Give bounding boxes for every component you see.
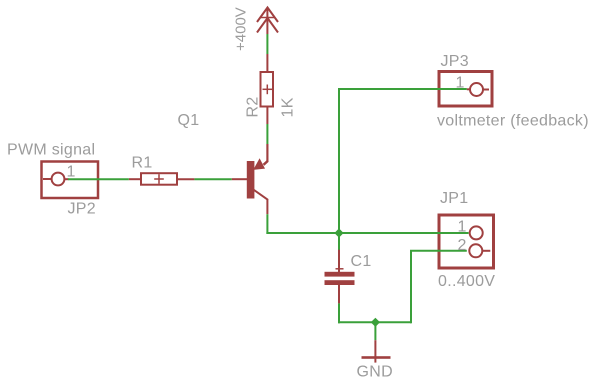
transistor Q1 (247, 144, 268, 214)
connector JP3 (439, 72, 492, 107)
wire net feedback horizontal (338, 88, 467, 90)
wire net emitter (266, 124, 268, 144)
svg-text:1K: 1K (280, 97, 297, 117)
wire net gnd right vertical (410, 251, 412, 323)
wire net to JP1 pin2 (410, 250, 467, 252)
svg-text:+400V: +400V (233, 7, 250, 51)
wire net collector vertical (266, 214, 268, 234)
svg-text:C1: C1 (351, 253, 372, 270)
pin Q1 emitter (266, 144, 268, 161)
capacitor C1 pin bottom (338, 285, 340, 303)
svg-text:1: 1 (67, 164, 76, 181)
wire net feedback vertical (338, 89, 340, 233)
svg-text:R1: R1 (132, 155, 153, 172)
capacitor C1 (325, 269, 355, 285)
pin R1 right (178, 178, 194, 180)
svg-text:PWM signal: PWM signal (7, 142, 95, 159)
pin Q1 base (232, 178, 247, 180)
wire net V+ (supply to R2) (266, 34, 268, 54)
pin R1 left (129, 178, 140, 180)
svg-text:JP2: JP2 (68, 201, 96, 218)
resistor R2 (261, 72, 274, 107)
svg-text:0..400V: 0..400V (438, 273, 495, 290)
pin R2 bottom (266, 108, 268, 125)
svg-text:JP1: JP1 (440, 190, 468, 207)
svg-text:R2: R2 (245, 96, 262, 117)
svg-text:GND: GND (357, 364, 393, 381)
ground GND (362, 340, 391, 362)
svg-text:1: 1 (456, 75, 465, 92)
wire net gnd stem (374, 322, 376, 340)
svg-text:2: 2 (458, 237, 467, 254)
resistor R1 (141, 173, 177, 185)
wire net gnd left vertical (338, 303, 340, 323)
wire net collector horizontal (266, 232, 339, 234)
supply symbol +400V (257, 8, 278, 35)
capacitor C1 pin top (338, 233, 340, 272)
connector JP1 (439, 215, 494, 268)
svg-text:Q1: Q1 (178, 112, 200, 129)
pin R2 top (266, 54, 268, 71)
wire net gnd horizontal (338, 321, 411, 323)
svg-text:voltmeter (feedback): voltmeter (feedback) (437, 113, 589, 130)
junction node gnd (371, 318, 380, 327)
wire net base right (194, 178, 231, 180)
svg-text:JP3: JP3 (441, 53, 469, 70)
connector JP2 (42, 162, 99, 199)
junction node collector (334, 228, 343, 237)
svg-text:1: 1 (458, 219, 467, 236)
wire net PWM (68, 178, 129, 180)
pin JP3-1 stub (467, 88, 470, 90)
wire net to JP1 pin1 (339, 232, 469, 234)
